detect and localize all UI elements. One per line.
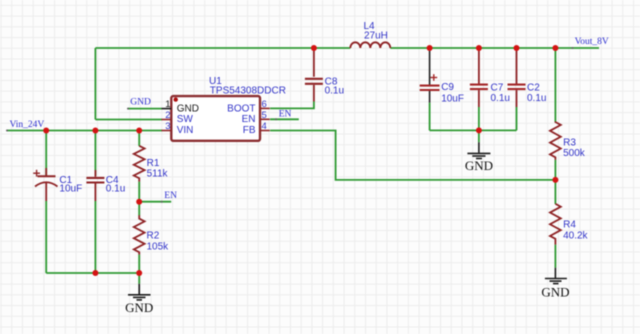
svg-text:GND: GND — [130, 98, 151, 108]
svg-text:R4: R4 — [563, 220, 576, 231]
node Vin_24V anchor — [6, 130, 8, 132]
wire: Vin rail — [7, 130, 162, 132]
svg-text:40.2k: 40.2k — [563, 231, 588, 242]
op-amp U1 body — [171, 76, 286, 141]
svg-text:C7: C7 — [491, 83, 504, 94]
node top rail C9 — [427, 45, 433, 51]
svg-text:R2: R2 — [147, 231, 160, 242]
pin 1 GND — [162, 99, 199, 114]
pin 5 EN — [242, 110, 270, 125]
capacitor C4 — [86, 131, 125, 274]
svg-text:GND: GND — [541, 285, 569, 300]
svg-text:3: 3 — [165, 121, 170, 132]
svg-text:0.1u: 0.1u — [325, 85, 344, 96]
svg-text:2: 2 — [165, 110, 170, 121]
wire: bottom rail — [46, 272, 139, 274]
svg-text:GND: GND — [125, 300, 153, 315]
svg-text:1: 1 — [165, 99, 170, 110]
svg-text:EN: EN — [164, 191, 177, 201]
svg-text:Vout_8V: Vout_8V — [575, 37, 609, 47]
node Vin/C4 — [92, 128, 98, 134]
svg-text:GND: GND — [177, 103, 199, 114]
wire: BOOT to C8 — [270, 102, 314, 109]
node bottom rail GND — [136, 270, 142, 276]
svg-text:EN: EN — [279, 109, 292, 119]
ground GND at divider — [125, 273, 153, 315]
node EN junction — [136, 199, 142, 205]
node cap rail GND — [476, 127, 482, 133]
svg-text:TPS54308DDCR: TPS54308DDCR — [210, 86, 286, 97]
wire: FB to divider — [270, 131, 555, 180]
node top rail R3 — [552, 45, 558, 51]
svg-text:R1: R1 — [147, 158, 160, 169]
node top rail C8 — [311, 45, 317, 51]
svg-text:0.1u: 0.1u — [491, 93, 510, 104]
pin 6 BOOT — [227, 99, 270, 114]
svg-text:GND: GND — [465, 158, 493, 173]
svg-text:27uH: 27uH — [364, 30, 388, 41]
svg-text:6: 6 — [262, 99, 267, 110]
resistor R4 — [550, 180, 589, 268]
node EN anchor pin5 — [275, 118, 277, 120]
node Vin/C1 — [43, 128, 49, 134]
capacitor C1 — [33, 131, 82, 274]
svg-text:EN: EN — [242, 114, 256, 125]
svg-text:500k: 500k — [563, 148, 586, 159]
svg-text:SW: SW — [177, 114, 194, 125]
resistor R3 — [550, 48, 586, 180]
resistor R1 — [134, 131, 169, 202]
svg-text:511k: 511k — [147, 169, 169, 180]
net label Vout_8V — [572, 37, 609, 49]
ground GND under R4 — [541, 268, 569, 300]
capacitor C2 — [508, 48, 547, 130]
capacitor C8 — [305, 48, 344, 102]
capacitor C9 — [420, 50, 464, 130]
svg-text:5: 5 — [262, 110, 267, 121]
inductor L4 — [350, 21, 390, 48]
pin 2 SW — [162, 110, 194, 125]
wire: top rail left of L4 — [95, 47, 350, 49]
wire: EN stub at divider — [139, 201, 171, 203]
svg-text:4: 4 — [262, 121, 267, 132]
node Vin/R1 — [136, 128, 142, 134]
svg-text:C2: C2 — [527, 83, 540, 94]
svg-text:FB: FB — [243, 125, 256, 136]
wire: top rail right of L4 — [390, 47, 599, 49]
node top rail C2 — [514, 45, 520, 51]
pin 3 VIN — [162, 121, 194, 136]
svg-text:0.1u: 0.1u — [527, 93, 546, 104]
node EN anchor divider — [161, 201, 163, 203]
wire: SW horizontal — [95, 119, 162, 121]
resistor R2 — [134, 202, 169, 273]
svg-text:Vin_24V: Vin_24V — [10, 120, 45, 130]
svg-text:BOOT: BOOT — [227, 103, 255, 114]
wire: EN stub pin5 — [270, 118, 299, 120]
svg-text:C9: C9 — [441, 82, 454, 93]
node FB divider — [552, 177, 558, 183]
svg-text:105k: 105k — [147, 242, 170, 253]
svg-text:0.1u: 0.1u — [106, 184, 125, 195]
ground GND under capacitors — [465, 130, 493, 172]
svg-text:VIN: VIN — [177, 125, 194, 136]
svg-text:10uF: 10uF — [441, 93, 464, 104]
wire: capacitor bottom rail — [430, 129, 517, 131]
svg-text:10uF: 10uF — [59, 184, 82, 195]
pin 4 FB — [243, 121, 270, 136]
node bottom rail C4 — [92, 270, 98, 276]
node top rail C7 — [476, 45, 482, 51]
net label GND at pin 1 — [127, 98, 162, 110]
wire: SW vertical to top rail — [94, 48, 96, 120]
capacitor C7 — [470, 48, 510, 130]
